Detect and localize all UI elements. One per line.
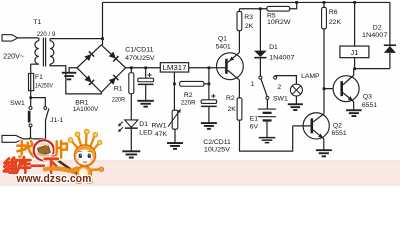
svg-text:D1: D1 [139, 121, 148, 128]
wire bottom input [23, 138, 46, 140]
svg-text:LED: LED [139, 129, 152, 136]
svg-text:J1: J1 [350, 48, 358, 57]
svg-text:220V~: 220V~ [3, 52, 24, 61]
wire Q3 base [324, 88, 342, 90]
svg-text:2K: 2K [245, 23, 254, 30]
node SW1 bottom [29, 138, 32, 141]
wire R2 right to C2 column [204, 83, 209, 85]
relay coil J1 [340, 46, 369, 58]
svg-text:22K: 22K [329, 19, 342, 26]
regulator U1 LM317 [160, 63, 188, 72]
wire R6 to rail [323, 2, 325, 7]
terminal input line 2 [2, 135, 23, 142]
ground lamp [288, 104, 303, 110]
svg-text:220R: 220R [112, 97, 125, 104]
node R2/C2 [208, 83, 211, 86]
diode D2 1N4007 [384, 45, 396, 68]
transformer T1 [31, 38, 54, 67]
ground C1 [137, 101, 154, 107]
wire contact 2 to lamp [275, 76, 296, 84]
svg-text:R3: R3 [244, 14, 253, 21]
wire DC positive rail [126, 67, 161, 69]
wire secondary bottom to bridge [50, 64, 101, 94]
wire SW1 common to battery [266, 99, 268, 109]
wire lamp to ground [295, 96, 297, 104]
svg-text:LM317: LM317 [163, 63, 187, 72]
resistor R2 2K [237, 98, 242, 120]
svg-text:1A250V: 1A250V [35, 82, 53, 89]
svg-text:6551: 6551 [332, 130, 347, 137]
plus sign C1 [147, 73, 151, 77]
bridge rectifier BR1 [77, 45, 126, 92]
node C1 top [144, 66, 147, 69]
capacitor C2 electrolytic [201, 68, 217, 123]
svg-text:www.dzsc.com: www.dzsc.com [16, 173, 92, 185]
bridge diode top-left [84, 51, 94, 61]
terminal input line 1 [2, 35, 18, 41]
svg-text:R6: R6 [329, 9, 338, 16]
wire rail left drop to AC node [102, 2, 104, 45]
svg-text:Q1: Q1 [218, 35, 227, 42]
svg-text:D2: D2 [373, 25, 382, 32]
resistor R6 [322, 7, 327, 28]
wire R6 to Q2 collector [323, 29, 325, 114]
wire primary bottom to fuse [30, 64, 32, 106]
svg-text:2: 2 [277, 84, 281, 91]
wire RW1 to ground [174, 129, 176, 143]
svg-text:6V: 6V [250, 124, 259, 131]
LED arrows [118, 122, 123, 133]
wire Q1 emitter to R3 [238, 31, 240, 53]
svg-text:1: 1 [251, 81, 255, 88]
bridge diode bottom-left [84, 75, 94, 85]
node Q3 collector top [353, 67, 356, 70]
bridge diode bottom-right [109, 75, 119, 85]
node A D1 branch [259, 7, 262, 10]
svg-text:5401: 5401 [216, 44, 231, 51]
wire Q2 base loop to R2 2K [240, 120, 293, 151]
wire J1 bottom [354, 58, 356, 69]
resistor R2 220R [180, 81, 204, 86]
wire R1 to LED [130, 94, 132, 120]
ground Q2 [316, 150, 332, 156]
svg-text:R2: R2 [184, 92, 193, 99]
ground Q3 [346, 110, 362, 116]
wire R5 to rail [290, 2, 297, 8]
node output/C2 [208, 66, 211, 69]
transistor Q3 6551 [333, 75, 359, 102]
wire top positive rail [103, 1, 390, 3]
wire Q2 emitter to ground [323, 139, 325, 150]
svg-text:RW1: RW1 [152, 122, 167, 129]
resistor R1 [130, 68, 132, 73]
wire R3 top to node A [238, 9, 240, 12]
switch SW1 power [28, 106, 32, 127]
svg-text:47K: 47K [155, 131, 168, 138]
plus sign C2 [211, 94, 215, 98]
svg-text:1A1000V: 1A1000V [73, 106, 99, 113]
svg-text:C2/CD11: C2/CD11 [203, 139, 231, 146]
wire Q3 emitter to ground [353, 102, 355, 110]
svg-text:220 / 9: 220 / 9 [37, 31, 56, 38]
svg-text:R1: R1 [114, 86, 123, 93]
wire LED to ground [130, 129, 132, 151]
wire LM317 output [189, 67, 217, 69]
svg-text:1N4007: 1N4007 [362, 32, 388, 39]
svg-text:220R: 220R [181, 99, 196, 106]
wire bridge negative to ground [69, 68, 77, 73]
svg-text:SW1: SW1 [273, 96, 288, 103]
svg-text:6551: 6551 [362, 102, 377, 109]
resistor R5 [267, 6, 290, 11]
watermark mascot [53, 129, 104, 184]
svg-text:J1-1: J1-1 [50, 117, 63, 124]
svg-text:E1: E1 [250, 116, 259, 123]
svg-text:D1: D1 [269, 44, 278, 51]
node R6 rail [323, 1, 326, 4]
watermark magnifier logo [34, 140, 54, 160]
transistor Q2 6551 [293, 113, 330, 139]
lamp [290, 84, 302, 96]
svg-text:470U25V: 470U25V [125, 55, 155, 62]
wire Q1 collector to R2 2K [238, 80, 240, 98]
potentiometer RW1 [168, 109, 181, 129]
node R5 rail [295, 1, 298, 4]
node AC top junction [101, 37, 104, 40]
node F1/SW1/J1-1 branch [29, 96, 32, 99]
svg-text:2K: 2K [228, 106, 237, 113]
wire terminal to primary [18, 37, 39, 39]
wire J1/D2/Q3 node [354, 68, 390, 70]
svg-text:SW1: SW1 [10, 100, 25, 107]
LED D1 [125, 120, 138, 128]
transistor Q1 5401 [217, 52, 244, 80]
bridge diode top-right [109, 52, 119, 62]
pink bottom band [0, 160, 400, 186]
ground C2 [201, 123, 217, 129]
svg-text:LAMP: LAMP [301, 73, 320, 80]
ground RW1 [167, 143, 183, 149]
wire rail to J1 [354, 2, 356, 46]
svg-text:F1: F1 [35, 74, 43, 81]
wire Q3 collector [353, 69, 355, 76]
node J1 rail [353, 1, 356, 4]
wire LM317 adj [173, 72, 175, 110]
fuse F1 [29, 73, 34, 90]
battery E1 [258, 109, 276, 137]
node adj/R2 [173, 83, 176, 86]
svg-text:1N4007: 1N4007 [269, 55, 295, 62]
switch SW1 charge/use [259, 76, 277, 99]
capacitor C1 electrolytic [138, 68, 154, 101]
svg-text:10U25V: 10U25V [204, 146, 230, 153]
svg-text:10R2W: 10R2W [267, 19, 292, 26]
wire rail right drop [389, 2, 391, 45]
svg-text:R2: R2 [226, 95, 235, 102]
watermark weiku yixia text [4, 157, 58, 173]
ground E1 [259, 138, 276, 143]
node Q2 collector / Q3 base [323, 87, 326, 90]
svg-text:C1/CD11: C1/CD11 [125, 47, 154, 54]
svg-text:T1: T1 [33, 19, 41, 26]
node R1 top [130, 66, 133, 69]
diode D1 1N4007 [254, 9, 267, 76]
wire SW1 bottom [30, 127, 32, 139]
watermark orange swoosh [43, 166, 77, 174]
relay contact J1-1 [31, 98, 49, 139]
ground bridge [62, 73, 77, 80]
svg-text:Q3: Q3 [363, 94, 372, 101]
ground LED [122, 151, 140, 157]
wire node A horizontal [239, 8, 267, 10]
resistor R3 [237, 11, 242, 30]
svg-text:Q2: Q2 [333, 123, 342, 130]
wire secondary top to bridge [51, 38, 103, 40]
watermark pian glyph [54, 141, 67, 158]
watermark zhao glyph [17, 141, 35, 157]
